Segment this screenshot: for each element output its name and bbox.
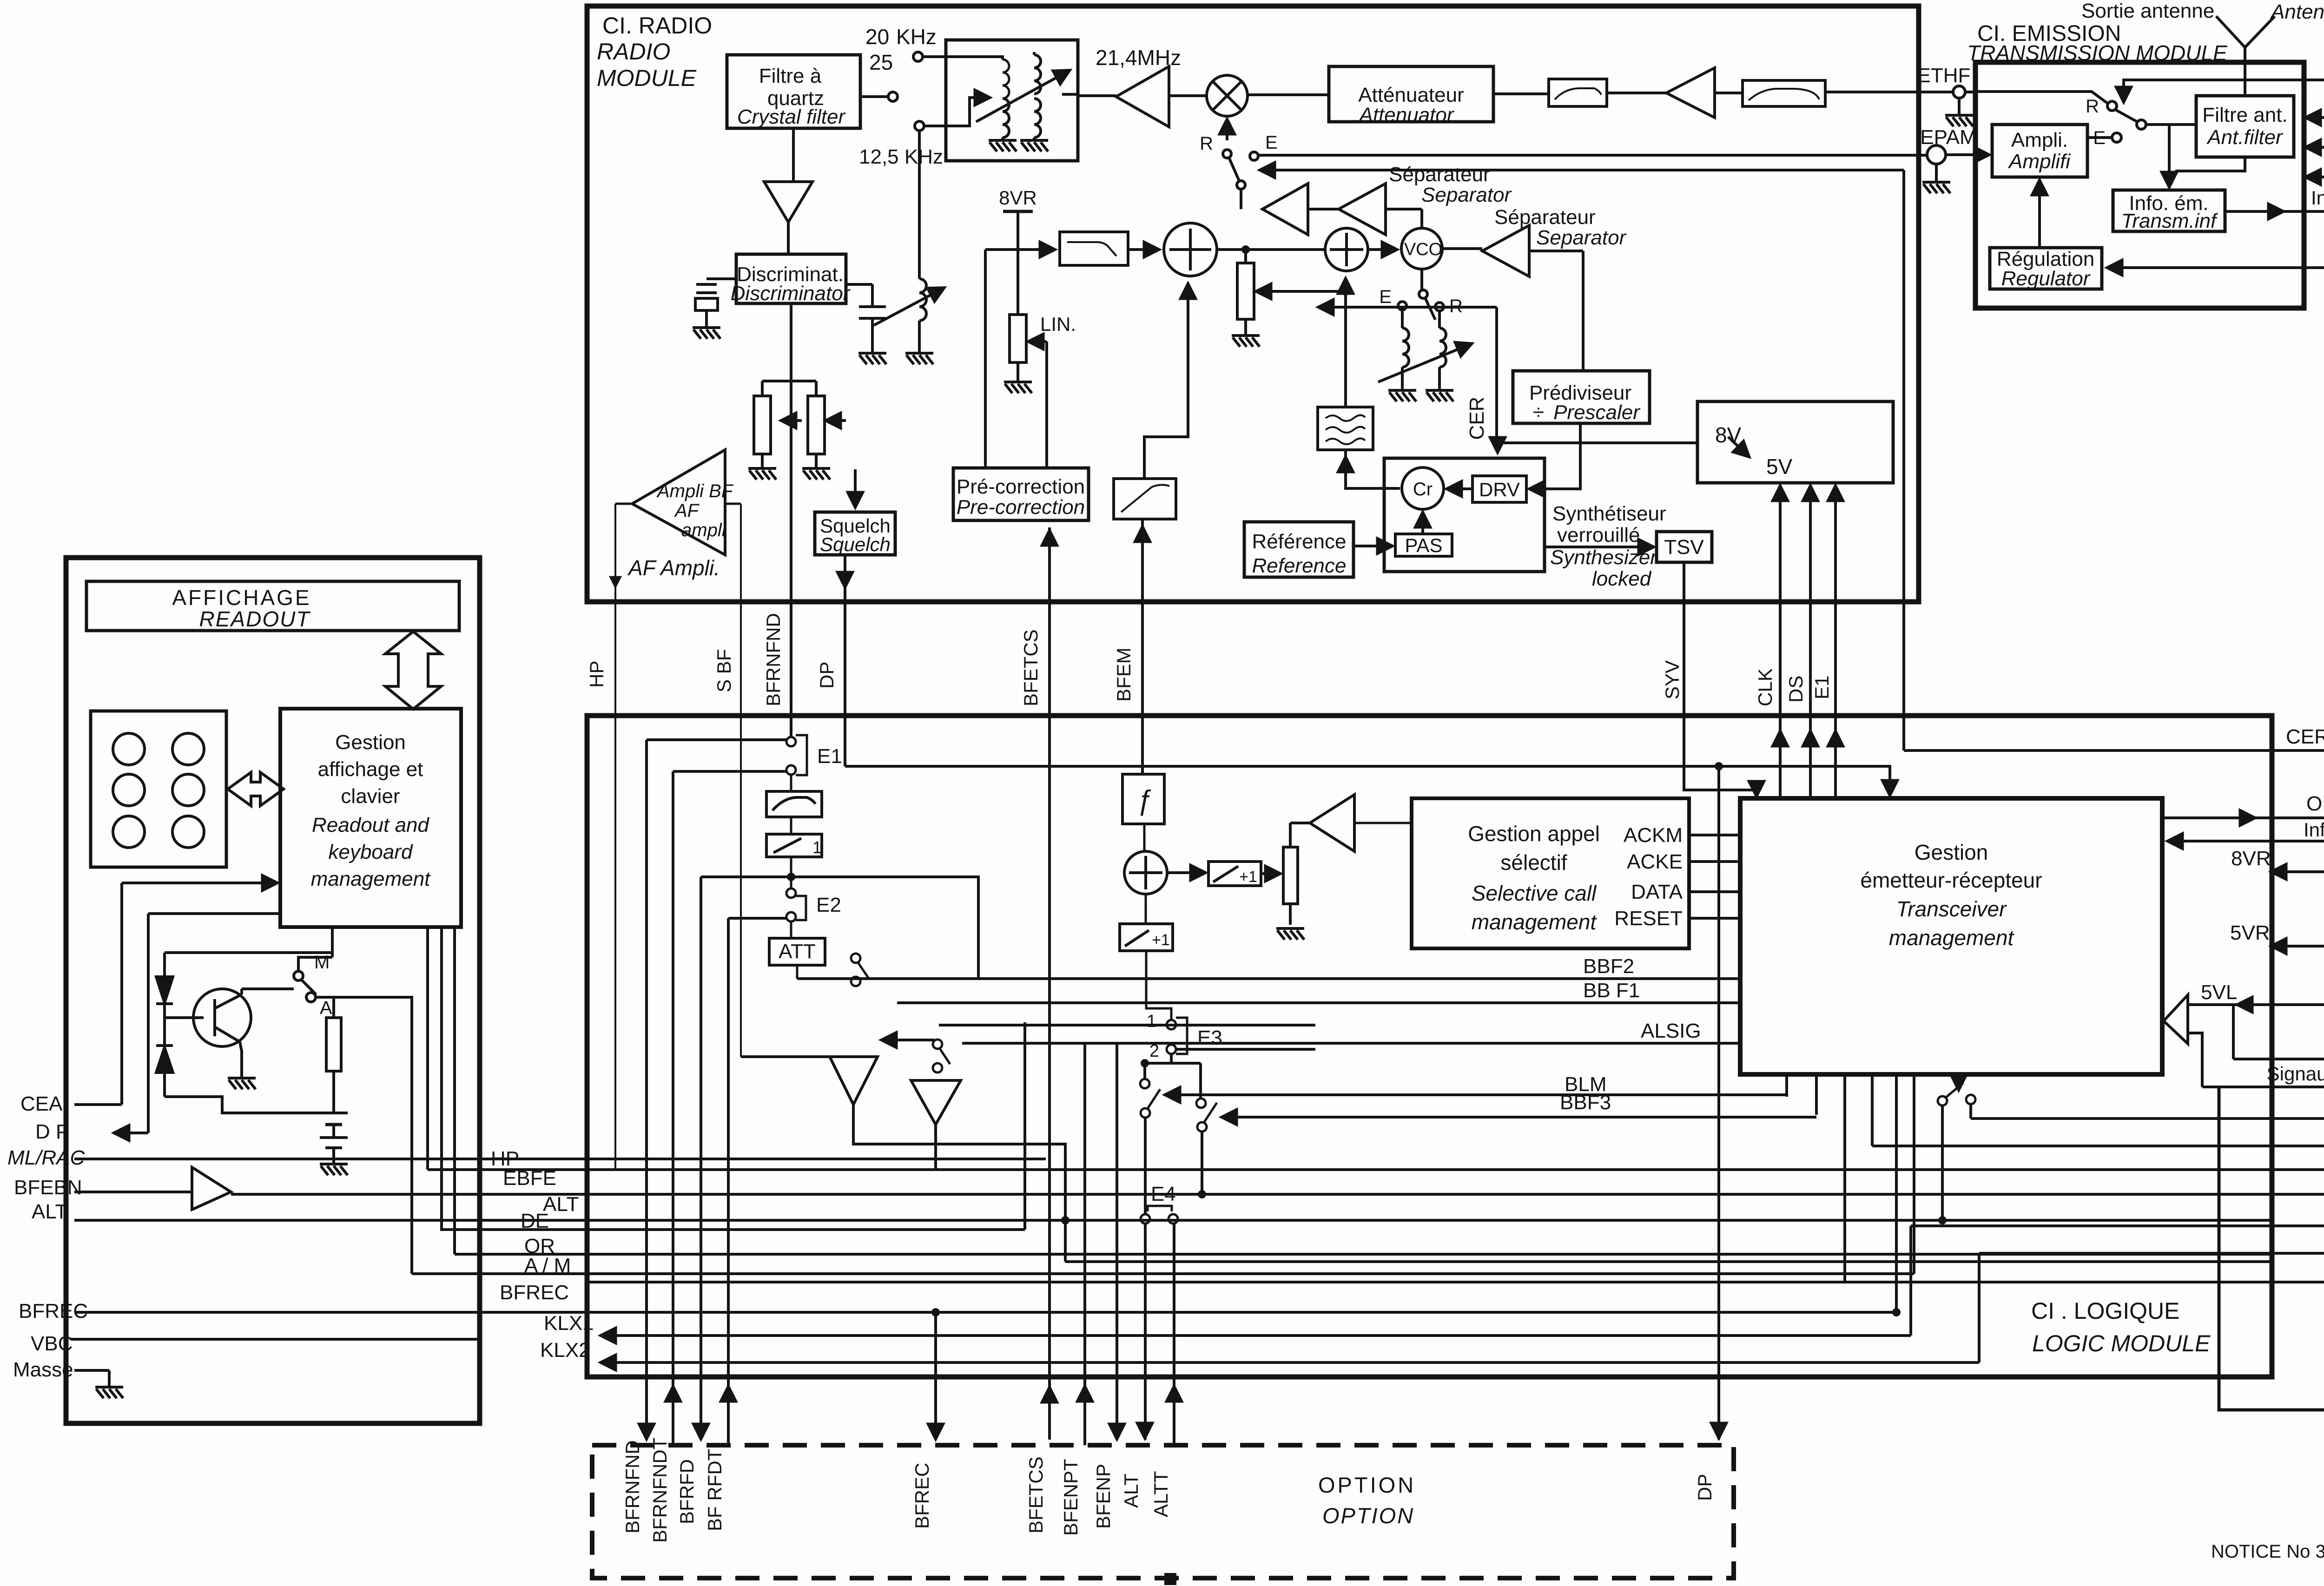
svg-text:DRV: DRV bbox=[1479, 479, 1520, 500]
svg-text:OPTION: OPTION bbox=[1322, 1503, 1414, 1528]
svg-text:BFENP: BFENP bbox=[1092, 1464, 1114, 1529]
svg-text:ACKE: ACKE bbox=[1627, 850, 1683, 873]
svg-text:BF RFDT: BF RFDT bbox=[704, 1449, 726, 1531]
svg-text:E: E bbox=[1379, 287, 1392, 307]
svg-text:AFFICHAGE: AFFICHAGE bbox=[172, 586, 311, 610]
svg-text:clavier: clavier bbox=[341, 785, 400, 808]
svg-text:ALT: ALT bbox=[32, 1200, 67, 1223]
svg-text:Transm.inf: Transm.inf bbox=[2121, 210, 2218, 232]
svg-text:E1: E1 bbox=[817, 745, 842, 768]
svg-text:Discriminator: Discriminator bbox=[731, 282, 851, 305]
svg-text:EBFE: EBFE bbox=[503, 1167, 556, 1190]
svg-text:R: R bbox=[2086, 96, 2099, 117]
svg-text:BFETCS: BFETCS bbox=[1025, 1456, 1047, 1533]
svg-text:25: 25 bbox=[869, 50, 893, 74]
svg-text:DS: DS bbox=[1785, 676, 1807, 703]
svg-text:CI. RADIO: CI. RADIO bbox=[602, 13, 712, 39]
svg-text:E1: E1 bbox=[1811, 676, 1833, 699]
svg-text:BFENPT: BFENPT bbox=[1060, 1459, 1082, 1536]
svg-text:Pre-correction: Pre-correction bbox=[957, 496, 1085, 519]
svg-text:Prescaler: Prescaler bbox=[1553, 401, 1641, 424]
svg-text:BFREC: BFREC bbox=[500, 1281, 569, 1304]
svg-text:Separator: Separator bbox=[1421, 184, 1512, 206]
svg-text:LIN.: LIN. bbox=[1040, 313, 1076, 335]
svg-text:Transceiver: Transceiver bbox=[1896, 897, 2007, 921]
svg-text:Regulator: Regulator bbox=[2001, 267, 2091, 290]
svg-text:OPTION: OPTION bbox=[1318, 1473, 1416, 1497]
svg-text:Amplifi: Amplifi bbox=[2007, 150, 2071, 173]
svg-text:Gestion appel: Gestion appel bbox=[1468, 822, 1600, 846]
svg-text:Synthétiseur: Synthétiseur bbox=[1552, 502, 1666, 525]
svg-text:LOGIC MODULE: LOGIC MODULE bbox=[2032, 1330, 2211, 1356]
svg-text:PAS: PAS bbox=[1405, 534, 1443, 556]
svg-text:Info. em: Info. em bbox=[2304, 819, 2324, 841]
svg-text:TRANSMISSION MODULE: TRANSMISSION MODULE bbox=[1967, 41, 2228, 65]
svg-text:2: 2 bbox=[1149, 1041, 1159, 1061]
svg-text:READOUT: READOUT bbox=[199, 607, 311, 631]
svg-text:RESET: RESET bbox=[1614, 907, 1683, 930]
svg-text:Readout and: Readout and bbox=[312, 814, 430, 836]
svg-text:management: management bbox=[311, 868, 431, 890]
svg-text:VBC: VBC bbox=[31, 1332, 73, 1355]
svg-text:E2: E2 bbox=[816, 894, 841, 916]
svg-text:DP: DP bbox=[816, 662, 838, 689]
svg-text:Antenna output: Antenna output bbox=[2270, 0, 2324, 23]
svg-text:Ant.filter: Ant.filter bbox=[2206, 126, 2284, 149]
svg-text:émetteur-récepteur: émetteur-récepteur bbox=[1860, 868, 2042, 892]
svg-text:BFRNFNDT: BFRNFNDT bbox=[649, 1438, 671, 1543]
svg-text:Ampli.: Ampli. bbox=[2011, 129, 2068, 151]
svg-text:Synthesizer: Synthesizer bbox=[1550, 546, 1658, 569]
svg-text:CLK: CLK bbox=[1754, 668, 1776, 706]
svg-text:8VR: 8VR bbox=[2231, 847, 2271, 870]
svg-text:BFEM: BFEM bbox=[1113, 647, 1135, 702]
svg-text:ampli: ampli bbox=[681, 520, 726, 540]
svg-text:M: M bbox=[314, 952, 330, 973]
svg-text:HP: HP bbox=[586, 661, 607, 688]
svg-text:BFEBN: BFEBN bbox=[14, 1176, 82, 1199]
svg-text:locked: locked bbox=[1592, 567, 1652, 590]
svg-text:ALTT: ALTT bbox=[1150, 1471, 1172, 1517]
svg-text:ALT: ALT bbox=[1120, 1474, 1142, 1508]
svg-text:Selective call: Selective call bbox=[1472, 881, 1597, 905]
svg-text:Gestion: Gestion bbox=[335, 731, 406, 754]
svg-text:Cr: Cr bbox=[1413, 479, 1433, 500]
svg-text:BB F1: BB F1 bbox=[1583, 979, 1640, 1002]
svg-text:BFREC: BFREC bbox=[19, 1300, 88, 1323]
svg-text:Separator: Separator bbox=[1536, 226, 1627, 249]
svg-text:ALSIG: ALSIG bbox=[1641, 1020, 1701, 1042]
svg-text:AF: AF bbox=[674, 500, 700, 521]
svg-text:sélectif: sélectif bbox=[1500, 850, 1567, 875]
svg-text:management: management bbox=[1889, 926, 2015, 950]
svg-text:DE: DE bbox=[521, 1210, 549, 1232]
svg-text:D P: D P bbox=[35, 1120, 69, 1143]
svg-text:Filtre à: Filtre à bbox=[759, 65, 822, 87]
svg-text:Filtre ant.: Filtre ant. bbox=[2202, 104, 2287, 126]
svg-text:÷: ÷ bbox=[1533, 401, 1544, 424]
svg-text:KLX2: KLX2 bbox=[540, 1339, 590, 1362]
svg-text:Séparateur: Séparateur bbox=[1389, 163, 1490, 186]
svg-text:+1: +1 bbox=[1152, 931, 1170, 949]
svg-text:E: E bbox=[2093, 128, 2106, 148]
svg-text:management: management bbox=[1472, 910, 1598, 934]
svg-text:MODULE: MODULE bbox=[597, 65, 697, 91]
svg-text:1: 1 bbox=[1147, 1012, 1156, 1031]
svg-text:1: 1 bbox=[812, 838, 822, 857]
svg-text:CI . LOGIQUE: CI . LOGIQUE bbox=[2031, 1298, 2180, 1324]
svg-text:Séparateur: Séparateur bbox=[1494, 206, 1596, 229]
svg-text:8VR: 8VR bbox=[999, 187, 1037, 209]
svg-text:keyboard: keyboard bbox=[328, 841, 413, 863]
svg-text:Attenuator: Attenuator bbox=[1358, 104, 1454, 126]
svg-text:AF Ampli.: AF Ampli. bbox=[627, 556, 720, 580]
svg-text:ƒ: ƒ bbox=[1136, 784, 1152, 816]
svg-text:EPAM: EPAM bbox=[1920, 126, 1976, 149]
svg-text:Sortie antenne: Sortie antenne bbox=[2081, 0, 2214, 22]
svg-text:R: R bbox=[1449, 296, 1463, 316]
svg-text:Squelch: Squelch bbox=[820, 533, 891, 555]
svg-text:E3: E3 bbox=[1197, 1027, 1222, 1049]
svg-text:ACKM: ACKM bbox=[1624, 824, 1683, 847]
svg-text:5VR: 5VR bbox=[2230, 921, 2270, 944]
svg-text:+1: +1 bbox=[1239, 868, 1257, 886]
svg-text:BFETCS: BFETCS bbox=[1020, 629, 1042, 706]
svg-text:CER: CER bbox=[2286, 725, 2324, 748]
svg-text:Reference: Reference bbox=[1252, 554, 1346, 577]
svg-text:NOTICE No 31697-31698: NOTICE No 31697-31698 bbox=[2211, 1541, 2324, 1562]
svg-text:OPE: OPE bbox=[2306, 792, 2324, 815]
svg-text:DP: DP bbox=[1694, 1474, 1716, 1501]
svg-text:8V: 8V bbox=[1715, 423, 1742, 447]
svg-text:affichage et: affichage et bbox=[318, 758, 423, 781]
svg-text:VCO: VCO bbox=[1404, 240, 1442, 259]
svg-text:Ampli BF: Ampli BF bbox=[656, 481, 734, 501]
svg-text:5VL: 5VL bbox=[2201, 981, 2237, 1004]
svg-text:12,5 KHz: 12,5 KHz bbox=[859, 145, 943, 168]
svg-text:21,4MHz: 21,4MHz bbox=[1096, 46, 1181, 70]
svg-text:Atténuateur: Atténuateur bbox=[1358, 84, 1464, 106]
svg-text:BFREC: BFREC bbox=[911, 1463, 933, 1529]
svg-text:BFRFD: BFRFD bbox=[676, 1459, 698, 1524]
svg-text:BFRNFND: BFRNFND bbox=[621, 1440, 643, 1533]
svg-text:RADIO: RADIO bbox=[597, 39, 670, 65]
svg-text:KHz: KHz bbox=[896, 25, 937, 49]
svg-text:Gestion: Gestion bbox=[1915, 840, 1988, 864]
svg-text:R: R bbox=[1200, 133, 1213, 154]
svg-text:Info. em: Info. em bbox=[2311, 187, 2324, 209]
svg-text:Référence: Référence bbox=[1252, 530, 1346, 553]
svg-text:ATT: ATT bbox=[779, 940, 816, 963]
svg-text:Masse: Masse bbox=[13, 1358, 73, 1381]
svg-text:Pré-correction: Pré-correction bbox=[957, 475, 1085, 498]
svg-text:ETHF: ETHF bbox=[1917, 64, 1971, 87]
svg-text:A / M: A / M bbox=[524, 1254, 571, 1277]
svg-text:ML/RAC: ML/RAC bbox=[7, 1146, 85, 1169]
svg-text:BFRNFND: BFRNFND bbox=[762, 613, 784, 706]
svg-text:DATA: DATA bbox=[1631, 881, 1683, 903]
svg-text:5V: 5V bbox=[1766, 454, 1793, 479]
svg-text:BBF3: BBF3 bbox=[1560, 1091, 1611, 1114]
svg-text:verrouillé: verrouillé bbox=[1557, 524, 1640, 546]
svg-text:KLX1: KLX1 bbox=[544, 1312, 594, 1335]
svg-text:TSV: TSV bbox=[1664, 536, 1704, 559]
svg-text:Signaux logiques-logic signal: Signaux logiques-logic signals bbox=[2267, 1063, 2324, 1085]
svg-text:Crystal filter: Crystal filter bbox=[737, 105, 846, 128]
svg-text:CEA: CEA bbox=[20, 1092, 63, 1115]
svg-text:A: A bbox=[320, 998, 332, 1018]
svg-text:E: E bbox=[1265, 132, 1278, 153]
svg-text:20: 20 bbox=[865, 25, 889, 49]
svg-text:S BF: S BF bbox=[713, 649, 735, 692]
svg-text:SYV: SYV bbox=[1661, 660, 1683, 699]
svg-text:CER: CER bbox=[1466, 397, 1488, 440]
svg-text:BBF2: BBF2 bbox=[1583, 955, 1634, 978]
